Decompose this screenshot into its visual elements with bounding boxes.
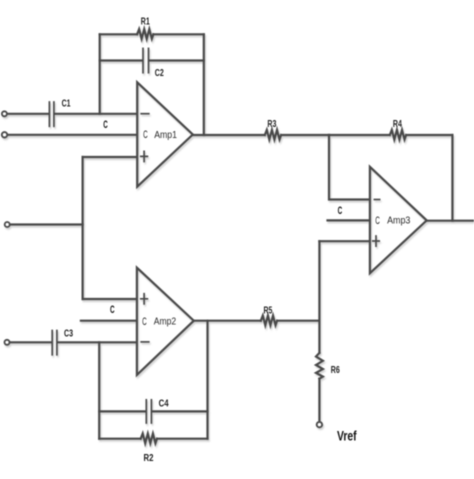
svg-text:C: C [103,119,108,131]
svg-text:C: C [143,129,148,141]
Amp2 inverting pin mark - [141,341,149,343]
wire Amp3 + input horizontal [319,240,369,242]
op-amp Amp2 [137,268,194,375]
svg-text:C: C [338,205,343,217]
capacitor C4 [146,400,151,423]
wire R2 left [99,438,141,440]
wire R4 feedback right vertical [451,135,453,221]
wire R1 to right vertical [153,33,203,35]
svg-text:C4: C4 [159,399,169,410]
terminal Vref [317,422,322,427]
svg-text:R5: R5 [264,306,273,317]
svg-text:R1: R1 [141,16,150,27]
resistor R5 [261,316,277,326]
wire bus to Amp1 + input [83,156,136,158]
svg-text:C2: C2 [155,68,164,79]
op-amp Amp3 [370,167,427,273]
wire R2 to right vertical [157,438,208,440]
wire C2 right [150,59,204,61]
svg-text:Vref: Vref [337,428,357,444]
wire left vertical to R1 [100,33,137,35]
wire R5 to node B [277,320,319,322]
wire R4 to right feedback vertical [406,134,452,136]
resistor R6 [316,353,323,379]
wire R6 to Vref terminal [318,379,320,420]
wire feedback left vertical (R1/C2 to inverting node) [99,34,101,114]
svg-text:C: C [110,304,115,316]
wire C4 right [153,410,208,412]
resistor R1 [137,29,153,39]
resistor R4 [390,130,406,140]
wire Amp1 output to R3 [193,134,265,136]
terminal T4 (bottom input) [5,340,10,345]
svg-text:R2: R2 [144,453,154,464]
capacitor C3 [52,331,57,355]
Amp3 noninverting pin mark + [373,236,379,246]
wire T4 to C3 [10,341,51,343]
Amp2 noninverting pin mark + [141,294,148,304]
svg-text:C: C [375,215,380,227]
svg-text:C1: C1 [62,98,71,109]
svg-text:R4: R4 [393,119,402,130]
resistor R2 [141,434,157,444]
Amp1 noninverting pin mark + [141,151,148,161]
op-amp Amp1 [137,82,193,186]
wire R3 to node A [281,134,329,136]
wire Amp2 feedback right vertical to output [206,321,208,439]
wire C2 left [100,59,143,61]
wire Amp2 middle stub [81,320,135,322]
terminal T2 (second input) [2,132,7,137]
svg-text:R3: R3 [267,119,276,130]
wire Amp3 output to right edge [427,220,474,222]
resistor R3 [265,130,281,140]
wire T1 to C1 [7,113,48,115]
svg-text:R6: R6 [331,365,340,376]
svg-text:C3: C3 [64,328,73,339]
svg-text:Amp1: Amp1 [154,130,177,141]
wire Amp3 + vertical down to node B [318,241,320,321]
wire feedback right vertical to Amp1 output [203,34,205,135]
svg-text:Amp2: Amp2 [154,317,177,328]
wire node A to R4 [329,134,390,136]
svg-text:Amp3: Amp3 [387,216,411,227]
wire noninverting bus vertical [81,157,83,299]
wire Amp3 middle stub [328,219,370,221]
terminal T1 (top input) [2,111,7,116]
wire C4 left [99,410,145,412]
wire C1 to Amp1 inverting input [55,113,135,115]
wire Amp2 feedback left vertical [98,342,100,438]
wire node A down to Amp3 inverting [329,135,369,200]
wire bus to Amp2 + input [83,298,136,300]
wire T2 to Amp1 middle input [8,134,136,136]
capacitor C2 [143,48,149,72]
capacitor C1 [49,102,54,126]
wire T3 to noninverting bus [10,223,83,225]
wire C3 to Amp2 inverting input [58,341,135,343]
Amp3 inverting pin mark - [374,199,379,201]
terminal T3 (middle input) [5,222,10,227]
wire node B down to R6 [318,321,320,353]
Amp1 inverting pin mark - [141,113,149,115]
svg-text:C: C [142,316,147,328]
wire Amp2 output to R5 [194,320,261,322]
